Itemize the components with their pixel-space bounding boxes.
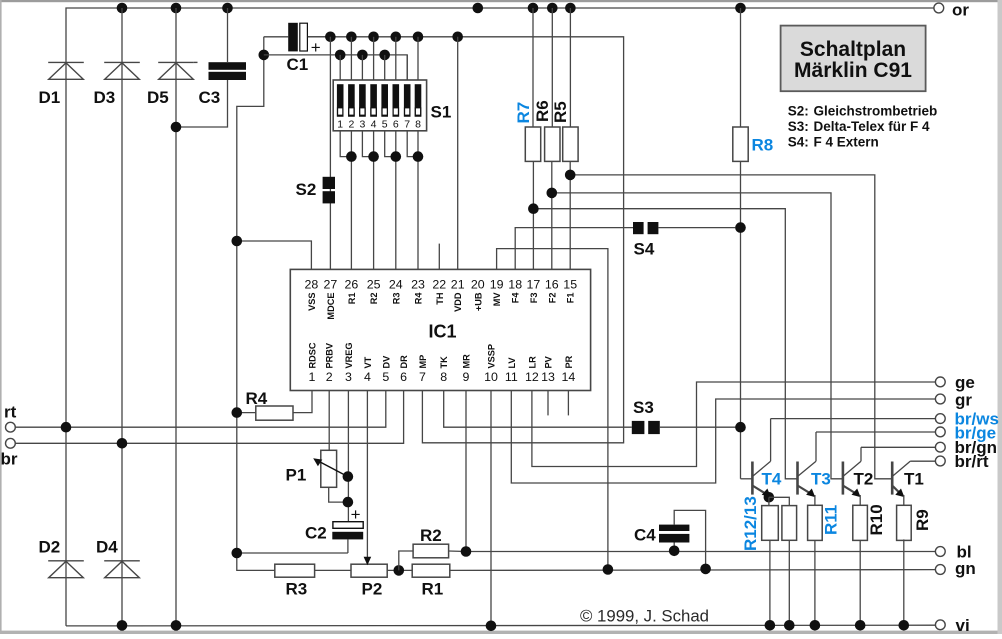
junction R7/F3 — [528, 203, 539, 214]
svg-text:R2: R2 — [420, 526, 442, 545]
svg-text:LV: LV — [507, 357, 517, 369]
wire br/ws from T4 collector — [771, 418, 936, 420]
junction top-rail/D3 column — [117, 3, 128, 14]
switch S4 — [633, 222, 736, 259]
resistor R2 — [399, 526, 466, 570]
svg-text:Schaltplan: Schaltplan — [800, 38, 906, 61]
junction sw5-sw6 — [391, 151, 402, 162]
wire pin28 VSS — [237, 241, 312, 269]
transistor T4 — [752, 419, 781, 498]
svg-text:19: 19 — [490, 278, 504, 292]
svg-text:25: 25 — [367, 278, 381, 292]
svg-text:F4: F4 — [511, 292, 521, 304]
svg-text:MDCE: MDCE — [326, 293, 336, 320]
resistor R11 — [808, 505, 841, 626]
terminal br/gn — [935, 438, 997, 457]
diode D3 — [94, 62, 140, 107]
transistor T2 — [843, 447, 873, 505]
junction R6/F2 — [547, 188, 558, 199]
terminal gr — [935, 391, 972, 410]
svg-text:23: 23 — [411, 278, 425, 292]
svg-text:7: 7 — [419, 370, 426, 384]
svg-text:TK: TK — [439, 356, 449, 369]
wire pin8 TK to S3 — [444, 391, 632, 427]
wire pin9 MR to bl rail — [465, 391, 467, 552]
svg-text:R2: R2 — [369, 293, 379, 305]
wire S2/pin27 line — [329, 37, 331, 270]
junction MR/bl — [461, 546, 472, 557]
svg-text:1: 1 — [309, 370, 316, 384]
svg-text:DV: DV — [381, 355, 391, 369]
wire R6 to pin16/T2 base — [552, 161, 843, 478]
svg-text:VDD: VDD — [453, 292, 463, 312]
svg-text:R11: R11 — [822, 505, 841, 535]
wire R7 to pin17/T3 base — [533, 161, 797, 478]
svg-text:P2: P2 — [362, 580, 383, 599]
svg-text:MR: MR — [462, 354, 472, 369]
junction VSS-riser — [232, 236, 243, 247]
pin 14 PR stub — [567, 391, 569, 416]
resistor R12/R13 pair — [741, 496, 797, 625]
junction top-rail/D5 column — [171, 3, 182, 14]
svg-text:D1: D1 — [39, 88, 61, 107]
svg-text:PR: PR — [564, 355, 574, 368]
svg-text:PV: PV — [544, 355, 554, 368]
svg-text:F3: F3 — [529, 293, 539, 304]
terminal ge — [935, 373, 974, 392]
junction VDD/pin21 — [452, 32, 463, 43]
svg-text:RDSC: RDSC — [308, 342, 318, 368]
svg-text:6: 6 — [393, 118, 399, 130]
wire bl rail — [466, 551, 935, 553]
svg-text:S3:: S3: — [788, 119, 809, 134]
junction vi/R13 — [784, 620, 795, 631]
wire pin21 VDD stub — [457, 37, 459, 270]
junction vi/D4 column — [171, 620, 182, 631]
resistor R8 — [733, 8, 773, 161]
svg-text:MP: MP — [418, 355, 428, 369]
svg-text:R8: R8 — [752, 136, 774, 155]
wire R5 to pin15/T1 base — [570, 161, 892, 478]
svg-text:S4:: S4: — [788, 134, 809, 149]
diode D5 — [147, 62, 198, 107]
wire R8 to T4 base — [741, 161, 753, 478]
junction vi/R10 — [855, 620, 866, 631]
svg-text:8: 8 — [415, 118, 421, 130]
junction top-rail/R8 — [735, 3, 746, 14]
potentiometer P1 — [286, 450, 348, 502]
svg-text:1: 1 — [337, 118, 343, 130]
junction top-rail/R6 — [547, 3, 558, 14]
transistor T3 — [798, 432, 831, 505]
svg-text:R3: R3 — [286, 580, 308, 599]
svg-text:br: br — [1, 450, 18, 469]
junction P1 wiper/pin3 — [343, 471, 354, 482]
svg-text:Märklin C91: Märklin C91 — [794, 59, 912, 82]
svg-text:+UB: +UB — [473, 292, 483, 311]
wire pin2 to P1 top — [328, 391, 330, 451]
wire rt line to pin5 DV — [15, 391, 386, 427]
wire br line to pin6 DR — [15, 391, 403, 444]
junction sw1-sw2 — [346, 151, 357, 162]
svg-text:12: 12 — [525, 370, 539, 384]
svg-text:C4: C4 — [634, 526, 656, 545]
junction VDD/S1-sw4 — [368, 32, 379, 43]
svg-text:R4: R4 — [414, 292, 424, 305]
svg-text:3: 3 — [345, 370, 352, 384]
svg-text:8: 8 — [440, 370, 447, 384]
resistor R1 — [412, 564, 450, 598]
svg-text:R10: R10 — [867, 504, 886, 535]
resistor R6 — [533, 8, 560, 161]
svg-text:R4: R4 — [246, 389, 268, 408]
resistor R7 — [514, 8, 541, 161]
svg-text:10: 10 — [484, 370, 498, 384]
wire br/gn from T2 collector — [861, 446, 935, 448]
svg-text:LR: LR — [527, 356, 537, 369]
pin 13 PV stub — [547, 391, 549, 416]
svg-text:R1: R1 — [347, 293, 357, 305]
svg-text:C1: C1 — [287, 55, 309, 74]
junction sw7-sw8 — [413, 151, 424, 162]
svg-text:TH: TH — [435, 292, 445, 305]
svg-text:9: 9 — [463, 370, 470, 384]
junction vi/VSSP — [486, 621, 497, 632]
junction C1-left/odd-switch rail — [259, 50, 270, 61]
wire P2-R1 — [387, 569, 412, 571]
switch S3 — [632, 398, 741, 434]
svg-text:4: 4 — [371, 118, 377, 130]
svg-text:br/rt: br/rt — [955, 452, 989, 471]
svg-text:11: 11 — [505, 370, 518, 384]
junction top-rail/C3 — [222, 3, 233, 14]
junction odd-rail/sw3 — [357, 50, 368, 61]
svg-text:22: 22 — [432, 278, 446, 292]
terminal or — [934, 1, 969, 20]
junction C4 top/gn — [700, 564, 711, 575]
wire sw2 to pin26 — [340, 131, 418, 270]
svg-text:20: 20 — [471, 278, 485, 292]
svg-text:S4: S4 — [634, 240, 655, 259]
capacitor C4 — [634, 510, 706, 569]
svg-text:S1: S1 — [431, 103, 452, 122]
terminal gn — [935, 559, 975, 578]
wire br/rt from T1 collector — [910, 460, 935, 462]
junction R5/F1 — [565, 170, 576, 181]
svg-text:16: 16 — [545, 278, 559, 292]
svg-text:P1: P1 — [286, 466, 307, 485]
junction gn/MV — [603, 564, 614, 575]
svg-text:F 4 Extern: F 4 Extern — [814, 134, 879, 149]
junction top-rail/R5 — [565, 3, 576, 14]
svg-text:3: 3 — [359, 118, 365, 130]
svg-text:C2: C2 — [305, 524, 327, 543]
svg-text:T3: T3 — [811, 470, 831, 489]
junction VDD/S2 line — [325, 32, 336, 43]
capacitor C3 — [176, 8, 246, 127]
svg-text:R12/13: R12/13 — [741, 496, 760, 551]
svg-text:S2: S2 — [296, 180, 317, 199]
svg-text:vi: vi — [956, 616, 970, 634]
svg-text:S2:: S2: — [788, 103, 809, 118]
wire D3/D4 column — [121, 8, 123, 625]
diode D1 — [39, 62, 84, 107]
svg-text:R9: R9 — [913, 509, 932, 531]
wire pin10 VSSP to vi rail — [490, 391, 492, 626]
svg-text:© 1999, J. Schad: © 1999, J. Schad — [580, 607, 709, 626]
switch S2 — [296, 177, 336, 204]
copyright note — [580, 607, 709, 626]
svg-text:5: 5 — [382, 370, 389, 384]
junction odd-rail/sw1 — [335, 50, 346, 61]
svg-text:F2: F2 — [547, 293, 557, 304]
junction R8/S4 wire — [735, 222, 746, 233]
junction vi/R9 — [899, 620, 910, 631]
junction C4 bottom/bl — [669, 546, 680, 557]
svg-text:17: 17 — [527, 278, 541, 292]
svg-text:T1: T1 — [904, 470, 924, 489]
diode D2 — [39, 538, 84, 578]
svg-text:5: 5 — [382, 118, 388, 130]
junction top-rail/pin20 +UB — [473, 3, 484, 14]
svg-text:R6: R6 — [533, 100, 552, 122]
wire vi rail — [66, 624, 935, 627]
svg-text:4: 4 — [364, 370, 371, 384]
svg-text:21: 21 — [451, 278, 465, 292]
terminal br — [1, 438, 18, 468]
terminal rt — [4, 403, 17, 433]
svg-text:26: 26 — [345, 278, 359, 292]
svg-text:gr: gr — [955, 391, 972, 410]
wire pin11 LV to gr — [511, 391, 935, 483]
svg-text:R7: R7 — [514, 102, 533, 124]
svg-text:rt: rt — [4, 403, 17, 422]
wire pin18 F4 to S4 — [515, 228, 633, 270]
wire pin3 VREG — [347, 391, 349, 522]
svg-text:D2: D2 — [39, 538, 61, 557]
svg-text:6: 6 — [400, 370, 407, 384]
wire odd-switch rail — [264, 55, 407, 80]
capacitor C1 — [264, 23, 331, 74]
junction VDD/S1-sw8 — [413, 32, 424, 43]
svg-text:ge: ge — [955, 373, 975, 392]
junction rt/D1 column — [61, 422, 72, 433]
junction odd-rail/sw5 — [379, 50, 390, 61]
junction T4 emitter/R12-R13 — [764, 492, 775, 503]
resistor R10 — [853, 504, 886, 625]
svg-text:PRBV: PRBV — [325, 342, 335, 368]
terminal br/ws — [935, 410, 999, 429]
transistor T1 — [892, 461, 924, 505]
resistor R3 — [275, 564, 315, 598]
terminal vi — [935, 616, 969, 635]
junction vi/R12 — [765, 620, 776, 631]
wire br/ge from T3 collector — [816, 431, 935, 433]
svg-text:27: 27 — [324, 278, 338, 292]
svg-text:Delta-Telex für F 4: Delta-Telex für F 4 — [814, 119, 931, 134]
svg-text:14: 14 — [562, 370, 576, 384]
junction VDD/S1-sw2 — [346, 32, 357, 43]
title box Schaltplan Märklin C91 — [781, 26, 926, 92]
terminal bl — [935, 543, 971, 562]
wire pin1 to R4 — [293, 391, 312, 413]
svg-text:D5: D5 — [147, 88, 169, 107]
svg-text:15: 15 — [563, 278, 577, 292]
wire pin19 MV to gn rail — [497, 249, 608, 570]
resistor R9 — [897, 505, 932, 625]
svg-text:VSSP: VSSP — [487, 344, 497, 369]
svg-text:F1: F1 — [566, 293, 576, 304]
terminal br/ge — [935, 424, 996, 443]
svg-text:T2: T2 — [854, 470, 874, 489]
potentiometer P2 — [351, 391, 387, 599]
svg-text:7: 7 — [404, 118, 410, 130]
switch S1 (8x DIP) — [333, 37, 451, 131]
wire gn rail — [450, 569, 936, 572]
wire pin12 LR to ge — [532, 382, 936, 467]
svg-text:R5: R5 — [551, 101, 570, 123]
legend S2/S3/S4 — [788, 103, 938, 149]
svg-text:or: or — [952, 1, 969, 20]
resistor R4 — [237, 389, 293, 420]
svg-text:VSS: VSS — [307, 293, 317, 311]
junction P2/R1/R2 — [394, 565, 405, 576]
junction sw3-sw4 — [368, 151, 379, 162]
svg-text:24: 24 — [389, 278, 403, 292]
svg-text:IC1: IC1 — [428, 322, 456, 342]
svg-text:VREG: VREG — [344, 342, 354, 368]
svg-text:S3: S3 — [633, 398, 654, 417]
svg-text:R3: R3 — [391, 293, 401, 305]
junction S3/T4-base line — [735, 422, 746, 433]
junction P1 bottom/C2 — [343, 497, 354, 508]
resistor R5 — [551, 8, 578, 161]
pin 22 TH stub — [438, 244, 440, 270]
svg-text:2: 2 — [348, 118, 354, 130]
svg-text:18: 18 — [508, 278, 522, 292]
svg-text:gn: gn — [955, 559, 976, 578]
junction vi/R11 — [810, 620, 821, 631]
svg-text:2: 2 — [326, 370, 333, 384]
junction br/D3 column — [117, 438, 128, 449]
svg-text:+: + — [351, 505, 361, 524]
svg-text:VT: VT — [363, 356, 373, 368]
junction C3/D5 column — [171, 122, 182, 133]
junction VDD/S1-sw6 — [391, 32, 402, 43]
svg-text:R1: R1 — [422, 580, 444, 599]
junction R4/VSS riser — [232, 407, 243, 418]
op-amp IC1 (decoder chip) — [290, 269, 590, 390]
diode D4 — [96, 538, 140, 578]
svg-text:C3: C3 — [199, 88, 221, 107]
junction C2/VSS riser — [232, 548, 243, 559]
svg-text:T4: T4 — [762, 470, 782, 489]
svg-text:13: 13 — [541, 370, 555, 384]
junction vi/D2 column — [117, 620, 128, 631]
svg-text:28: 28 — [305, 278, 319, 292]
terminal br/rt — [935, 452, 988, 471]
junction top-rail/R7 — [528, 3, 539, 14]
wire VDD rail (C1 right) — [308, 37, 624, 443]
svg-text:+: + — [311, 38, 321, 57]
svg-text:MV: MV — [492, 292, 502, 307]
svg-text:DR: DR — [399, 355, 409, 369]
svg-text:D3: D3 — [94, 88, 116, 107]
svg-text:D4: D4 — [96, 538, 118, 557]
wire D5 column — [175, 8, 177, 625]
wire C1-left to VSS net riser — [237, 37, 275, 571]
svg-text:Gleichstrombetrieb: Gleichstrombetrieb — [814, 103, 938, 118]
wire R3-P2 — [315, 569, 351, 571]
capacitor C2 — [237, 505, 363, 553]
